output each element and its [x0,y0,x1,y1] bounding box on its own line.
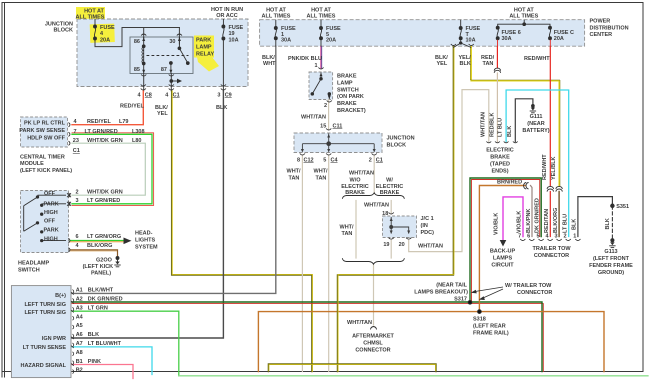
svg-text:LAMP: LAMP [196,45,212,51]
svg-text:HAZARD SIGNAL: HAZARD SIGNAL [20,363,66,369]
chevron C9 [221,85,226,91]
wire WHT/TAN: C1 down to split brace [373,156,375,193]
wire BLK/ORG: headlamp pin4 to G200 [70,250,118,257]
arrow to BACK-UP LAMPS CIRCUIT [500,240,507,247]
svg-text:G111: G111 [530,114,543,120]
taped ends chevrons (electric brake) [486,142,517,143]
svg-text:HOT AT: HOT AT [311,7,331,13]
svg-text:HDLP SW OFF: HDLP SW OFF [27,135,65,141]
svg-text:AFTERMARKET: AFTERMARKET [352,333,394,339]
headlamp switch internals [24,193,71,242]
svg-text:20: 20 [399,242,405,248]
switch section 1: contacts OFF PARK HIGH [36,196,38,198]
power distribution center dashed box [260,20,585,47]
svg-text:ELECTRIC: ELECTRIC [376,184,404,190]
svg-text:LT BLU/WHT: LT BLU/WHT [88,341,122,347]
pointer lines: W/ TRAILER TOW CONNECTOR [472,287,503,300]
svg-text:A5: A5 [76,323,83,329]
svg-text:RED/TAN: RED/TAN [544,209,550,233]
CHMSL connector brace [371,327,377,330]
svg-text:ALL TIMES: ALL TIMES [307,14,336,20]
svg-text:S351: S351 [616,204,629,210]
svg-text:HIGH: HIGH [44,210,58,216]
svg-text:L308: L308 [132,129,145,135]
switch section 2: contacts OFF PARK HIGH [36,222,38,224]
svg-text:J/C 1: J/C 1 [421,216,434,222]
chevron C1 (junction block) [169,85,174,91]
wire: relay pin85 to C8 [143,74,145,92]
J/C 1 dashed box [383,216,417,238]
svg-text:C4: C4 [331,157,339,163]
svg-text:BLK/ORG: BLK/ORG [87,243,112,249]
svg-text:A6: A6 [76,332,83,338]
svg-text:W/O: W/O [350,178,362,184]
svg-text:B(+): B(+) [55,293,66,299]
bottom connector pin rows [76,288,123,374]
svg-text:PANEL): PANEL) [91,271,111,277]
svg-text:LT GRN/RED: LT GRN/RED [87,198,120,204]
J/C1 internal bus [390,217,411,234]
svg-text:A1: A1 [76,288,83,294]
wire LT BLU/WHT: pin A7 right, down to bottom [72,347,152,375]
svg-text:WHT/DK GRN: WHT/DK GRN [87,138,123,144]
svg-text:RED/: RED/ [481,55,495,61]
connector chevrons [69,34,581,252]
svg-text:20A: 20A [100,37,110,43]
wire LT GRN: pin A3 right, down, along bottom [72,311,179,376]
svg-text:BRN/RED: BRN/RED [497,180,522,186]
svg-text:LT BLU: LT BLU [498,118,504,137]
svg-text:S318: S318 [473,317,486,323]
chevrons CTM pins 4,7,23 [69,123,71,146]
wire BLK: trailer pin1 up, right to S351 [578,197,613,237]
svg-text:(NEAR: (NEAR [527,121,544,127]
wire BLK dashed: S351 down to G113 [611,206,613,239]
svg-text:PARK: PARK [44,228,59,234]
svg-text:CONNECTOR: CONNECTOR [355,348,390,354]
svg-text:3: 3 [217,92,220,98]
relay pin 85 node [142,62,145,65]
svg-text:A4: A4 [76,314,84,320]
svg-text:8: 8 [297,157,300,163]
headlamp switch position labels [44,191,59,242]
svg-text:LIGHTS: LIGHTS [135,238,155,244]
relay pin numbers [134,39,176,73]
svg-text:OR ACC: OR ACC [216,13,238,19]
wire DK GRN/RED: pin A2 right to S317, to x542, down off page [72,304,543,372]
svg-text:BLK/: BLK/ [155,105,168,111]
wire BRN/RED: S318 left to x258.4 down off page [258,312,604,372]
svg-text:ALL TIMES: ALL TIMES [509,14,538,20]
inline connector break (BRN/RED to BLK/PNK) [524,183,529,189]
relay coil and contacts [142,37,189,74]
wire PNK/DK BLU: fuse5 down to brake lamp switch pin1 [320,47,322,69]
svg-text:LAMPS BREAKOUT): LAMPS BREAKOUT) [414,290,468,296]
svg-text:C8: C8 [145,92,152,98]
trailer tow pin numbers [518,234,576,240]
svg-text:BLK/WHT: BLK/WHT [88,288,114,294]
fuse 1 symbol [274,20,277,47]
junction block C11 bus bar [301,134,376,153]
svg-text:YEL: YEL [437,61,448,67]
svg-text:LAMP: LAMP [337,80,353,86]
svg-text:(LEFT KICK PANEL): (LEFT KICK PANEL) [20,168,72,174]
svg-text:WHT/TAN: WHT/TAN [481,112,487,137]
svg-text:MODULE: MODULE [20,161,44,167]
wire: relay pin30 drop [178,28,180,45]
svg-text:WHT/TAN: WHT/TAN [418,244,443,250]
svg-text:WHT/TAN: WHT/TAN [301,114,326,120]
svg-text:WHT/: WHT/ [287,169,302,175]
svg-text:B1: B1 [76,359,83,365]
svg-text:WHT/TAN: WHT/TAN [347,320,372,326]
svg-text:FUSE C: FUSE C [554,30,574,36]
svg-text:CONNECTOR: CONNECTOR [517,290,552,296]
svg-text:C9: C9 [225,92,232,98]
svg-text:S317: S317 [454,296,467,302]
svg-text:C1: C1 [73,148,80,154]
svg-text:VIO/BLK: VIO/BLK [493,213,499,235]
merge brace (to CHMSL) [342,258,404,264]
wire BLK/YEL (right): PDC to y275, left, down to bottom [338,47,454,372]
svg-text:RED/YEL: RED/YEL [120,104,144,110]
svg-text:G2OO: G2OO [96,257,113,263]
svg-text:PARK: PARK [196,38,211,44]
svg-text:BRAKE: BRAKE [380,190,400,196]
svg-text:CENTRAL TIMER: CENTRAL TIMER [20,154,65,160]
svg-text:ALL TIMES: ALL TIMES [262,14,291,20]
wire VIO/BLK: back-up lamps loop to trailer pin7 [503,197,523,240]
svg-text:(IN: (IN [421,223,428,229]
inline connector break (RED/TAN to RED/BLK) [494,68,500,73]
fuse 5 symbol [320,20,323,47]
wire: fuse19 to C9 (black) [222,41,224,91]
svg-text:BLK: BLK [88,332,99,338]
relay outline box [130,37,193,74]
svg-text:BLK: BLK [605,218,611,229]
svg-text:POWER: POWER [590,19,611,25]
svg-text:BLK: BLK [460,61,471,67]
svg-text:(ON PARK: (ON PARK [337,94,364,100]
svg-text:LT TURN SENSE: LT TURN SENSE [23,345,67,351]
svg-text:HOT IN RUN: HOT IN RUN [211,7,243,13]
chevron brake switch pin1 [318,68,323,70]
wire WHT/TAN: J/C1 pin20 right, up, to taped stub [409,90,489,252]
svg-text:A2: A2 [76,297,83,303]
svg-text:7: 7 [74,129,77,135]
svg-text:ALL TIMES: ALL TIMES [76,14,105,20]
svg-text:LAMPS: LAMPS [493,255,513,261]
svg-text:C1: C1 [376,157,383,163]
svg-text:YEL/BLK: YEL/BLK [551,156,557,180]
svg-text:SWITCH: SWITCH [18,267,40,273]
wire LT GRN/RED loop: CTM pin7 to headlamp pin3 [72,133,154,206]
fuse 19 symbol [222,19,225,40]
svg-text:A8: A8 [76,350,83,356]
junction block C11 dashed box [294,133,382,153]
svg-text:FUSE: FUSE [100,25,115,31]
relay pin 30 entry arrow and node [178,37,180,48]
contact lines to pins [38,194,67,196]
svg-text:87: 87 [161,67,167,73]
svg-text:OFF: OFF [44,191,56,197]
svg-text:7: 7 [518,234,521,240]
combination flasher connector box (bottom left) [11,286,71,378]
chevron C8 [141,85,146,91]
svg-text:WHT: WHT [263,61,276,67]
svg-text:DK GRN/RED: DK GRN/RED [88,297,123,303]
inline connector break (RED/WHT to RED/TAN) [547,186,553,191]
svg-text:3: 3 [554,234,557,240]
svg-text:LT BLU: LT BLU [562,214,568,233]
svg-text:G113: G113 [604,249,617,255]
svg-text:TAN: TAN [483,61,494,67]
highlight: fuse 4 label [90,24,115,43]
svg-text:20A: 20A [554,36,564,42]
svg-text:TAN: TAN [316,175,327,181]
ground G113 [609,239,615,248]
relay pin87 junction dot and right arrow [170,79,182,84]
svg-text:1: 1 [314,63,317,69]
svg-text:10A: 10A [466,38,476,44]
wire WHT/DK GRN loop: CTM pin23 to headlamp pin2 [72,143,145,195]
fuse C symbol [549,26,552,46]
svg-text:TRAILER TOW: TRAILER TOW [532,246,571,252]
svg-text:FENDER FRAME: FENDER FRAME [589,263,633,269]
wire BLK: C9 down to A6 row, left to pin A6 [72,91,223,338]
wire BLK/WHT: fuse1 down to A1 row, left to pin A1 [72,47,276,294]
svg-text:B2: B2 [76,368,83,374]
wire RED/BLK: below break, taped stub [496,73,498,142]
fuse 6 symbol [496,26,499,46]
svg-text:RED/YEL: RED/YEL [87,119,111,125]
svg-text:HIGH: HIGH [44,236,58,242]
svg-text:2: 2 [324,103,327,109]
svg-text:WHT/TAN: WHT/TAN [349,171,374,177]
relay switch blade [179,48,187,63]
svg-text:GROUND): GROUND) [598,270,624,276]
splice S317 [468,300,472,304]
svg-text:ELECTRIC: ELECTRIC [486,148,514,154]
svg-text:C11: C11 [333,123,343,129]
svg-text:TAN: TAN [289,175,300,181]
fuse 4 symbol [94,19,97,40]
svg-text:PDC): PDC) [421,230,435,236]
svg-text:LEFT TURN SIG: LEFT TURN SIG [24,310,66,316]
svg-text:BACK-UP: BACK-UP [490,248,516,254]
svg-text:3: 3 [76,198,79,204]
svg-text:TAN: TAN [342,231,353,237]
wire WHT/TAN: W/O electric brake branch [355,201,357,259]
svg-text:IGN PWR: IGN PWR [42,336,66,342]
svg-text:(LEFT REAR: (LEFT REAR [473,324,506,330]
svg-text:A3: A3 [76,305,83,311]
svg-text:OFF: OFF [44,219,56,225]
svg-text:RED/BLK: RED/BLK [490,113,496,137]
svg-text:BLK: BLK [216,105,227,111]
svg-text:10A: 10A [229,37,239,43]
wire WHT/TAN: C12 down to bottom [301,156,303,372]
svg-text:5: 5 [536,234,539,240]
svg-text:L80: L80 [132,138,141,144]
svg-text:23: 23 [73,138,79,144]
svg-text:19: 19 [383,242,389,248]
chevrons headlamp switch pins 2,3,6,4 [69,193,71,252]
svg-text:6: 6 [527,234,530,240]
highlight: hot at all times (left) [76,7,105,19]
svg-text:WHT/: WHT/ [314,169,329,175]
svg-text:FUSE 6: FUSE 6 [502,30,521,36]
svg-text:PARK SW SENSE: PARK SW SENSE [19,128,65,134]
svg-text:YEL: YEL [157,111,168,117]
svg-text:5: 5 [323,157,326,163]
svg-text:WHT/TAN: WHT/TAN [364,203,389,209]
svg-text:LT GRN: LT GRN [88,305,108,311]
wire WHT/TAN: J/C1 pin19 to merge brace [390,241,392,259]
svg-text:FRAME RAIL): FRAME RAIL) [473,331,509,337]
svg-text:RELAY: RELAY [196,52,214,58]
svg-text:PARK: PARK [44,201,59,207]
wire DK GRN/RED: S317 branch up, right, down to trailer pin5 [472,180,540,303]
wire BLK/PNK: inline connector to trailer pin6 [531,186,533,237]
arrow to HEADLIGHTS SYSTEM [124,238,132,245]
wire RED/TAN: fuse6 down to inline break [496,47,498,69]
svg-text:PK LP RL CTRL: PK LP RL CTRL [24,120,66,126]
wire RED/WHT: fuseC down, jog, break, RED/TAN to trailer pin4 [549,47,551,187]
svg-text:RED/WHT: RED/WHT [524,56,550,62]
svg-text:30A: 30A [281,38,291,44]
svg-text:ELECTRIC: ELECTRIC [341,184,369,190]
svg-text:HEAD-: HEAD- [135,231,153,237]
svg-text:19: 19 [229,31,235,37]
svg-text:BLK: BLK [507,126,513,137]
wire RED/YEL: C8 down, left to CTM pin 4 [72,91,143,125]
splice S318 [478,310,482,314]
wire WHT/TAN: merge brace down to CHMSL connector [373,265,375,326]
chevron C12/C4/C1 outputs [300,154,377,156]
svg-text:C1: C1 [173,92,180,98]
chevron brake switch pin2 [327,101,332,103]
svg-text:BRAKE: BRAKE [490,155,510,161]
svg-text:2: 2 [564,234,567,240]
svg-text:BRAKE: BRAKE [337,101,357,107]
svg-text:FUSE: FUSE [229,25,244,31]
wire PINK: pin B1 right, down to bottom [72,365,133,379]
bottom connector internal labels [20,293,66,369]
wire WHT/TAN: W/ electric brake branch to J/C1 pin18 [390,201,392,214]
svg-text:RED/WHT: RED/WHT [542,154,548,180]
svg-text:BRACKET): BRACKET) [337,108,366,114]
brake lamp switch dashed box [309,72,333,100]
wire YEL/BLK: PDC down, right, down to break, to trailer pin3 [471,47,559,187]
svg-text:VIO/BLK: VIO/BLK [517,211,523,233]
highlight: park lamp relay label [194,36,214,58]
svg-text:W/ TRAILER TOW: W/ TRAILER TOW [505,283,552,289]
rotated labels: electric brake wires [481,112,514,137]
svg-text:1: 1 [573,234,576,240]
splice S351 [611,204,615,208]
svg-text:(NEAR TAIL: (NEAR TAIL [436,283,467,289]
central timer module dashed box [21,117,68,147]
connector pin arcs at bottom-left block A1..B2 [71,290,74,374]
svg-text:JUNCTION: JUNCTION [387,136,415,142]
ganged link between sections [23,206,25,232]
wire: fuse4 to relay rail (black) [95,28,179,47]
chevron relay pin86 top [141,34,146,36]
svg-text:CIRCUIT: CIRCUIT [491,262,514,268]
ground G111 [530,104,536,112]
wire BLK/ORG: below break to trailer pin3 [558,192,560,237]
svg-text:86: 86 [134,39,140,45]
wire BLK: electric brake stub up, right to G111 [515,99,533,142]
svg-text:15: 15 [320,123,326,129]
chevron C11 [326,129,331,131]
fuse T symbol [453,20,471,48]
svg-text:(LEFT KICK: (LEFT KICK [83,264,114,270]
wire: relay pin87 to C1 [170,74,172,92]
wire: relay pin86 drop [143,28,145,39]
junction block (top left) dashed box [77,19,248,87]
svg-text:PNK/DK BLU: PNK/DK BLU [288,56,322,62]
chevrons PDC fuse T outputs [451,44,474,46]
brake lamp switch internals [311,73,331,100]
svg-text:HOT AT: HOT AT [514,7,534,13]
wire LT BLU: electric brake stub, up, right, down to trailer pin2 [506,90,569,237]
svg-text:85: 85 [134,67,140,73]
svg-text:18: 18 [382,211,388,217]
svg-text:2: 2 [76,189,79,195]
chevron J/C1 pins [389,213,412,240]
svg-text:30: 30 [169,39,175,45]
chevron relay pin30 top [177,34,182,36]
svg-text:LT GRN/ORG: LT GRN/ORG [87,234,121,240]
svg-text:SYSTEM: SYSTEM [135,245,158,251]
split brace (W/O vs W/ electric brake) [342,193,404,199]
svg-text:20A: 20A [326,38,336,44]
svg-text:LEFT TURN SIG: LEFT TURN SIG [24,302,66,308]
chevron relay pin87 [169,75,174,77]
svg-text:BATTERY): BATTERY) [522,128,549,134]
svg-text:BLK/: BLK/ [262,55,275,61]
relay pin 86 node [142,45,145,48]
wire LT GRN/ORG: headlamp pin6 to arrow [70,240,123,242]
svg-text:SWITCH: SWITCH [337,87,359,93]
ground G200 [114,257,120,267]
svg-text:BLK/ORG: BLK/ORG [553,208,559,233]
yellow highlights [76,7,219,72]
svg-text:BLOCK: BLOCK [387,143,407,149]
svg-text:HOT AT: HOT AT [266,7,286,13]
svg-text:L79: L79 [119,119,128,125]
svg-text:BLK: BLK [571,219,577,230]
X marks at pins 2,3 [67,193,71,206]
wire WHT/TAN: brake switch pin2 to C11 [328,100,330,130]
svg-text:YEL/: YEL/ [459,55,472,61]
svg-text:WHT/: WHT/ [340,225,355,231]
relay pin 86 entry arrow [143,37,145,46]
svg-text:CENTER: CENTER [590,32,613,38]
relay actuation dashed link [147,55,189,57]
svg-text:(LEFT FRONT: (LEFT FRONT [593,256,630,262]
svg-text:BRAKE: BRAKE [345,190,365,196]
wire BLK/YEL CHMSL jumper at bottom [268,364,436,372]
inline connector break (YEL/BLK to BLK/ORG) [556,186,562,191]
chevron relay pin85 [141,75,146,77]
relay pin 87 node [170,62,173,65]
svg-text:DISTRIBUTION: DISTRIBUTION [590,25,629,31]
PDC bus feeding fuse 6 and fuse C [498,20,550,28]
svg-text:WHT/DK GRN: WHT/DK GRN [87,189,123,195]
